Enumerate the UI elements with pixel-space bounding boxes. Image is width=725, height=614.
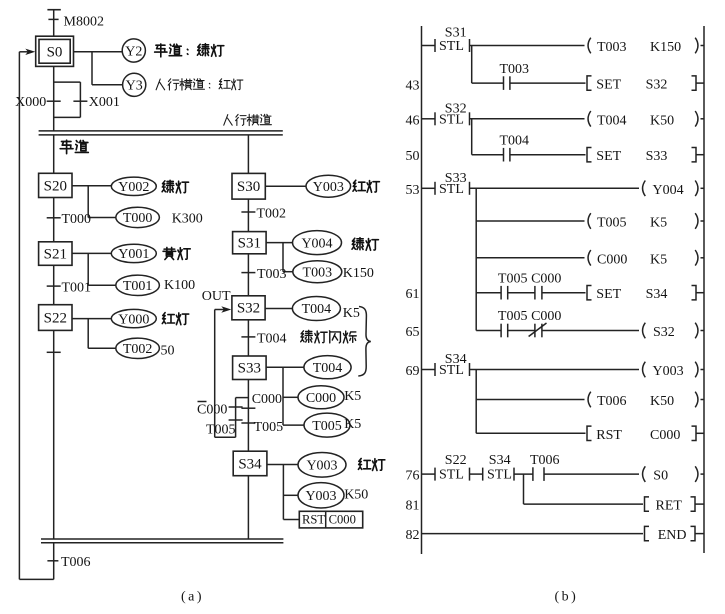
label 车道 (bold) bbox=[60, 140, 88, 153]
svg-text:T003: T003 bbox=[257, 267, 287, 282]
svg-text:C000: C000 bbox=[197, 403, 227, 418]
svg-text:T006: T006 bbox=[530, 453, 560, 468]
wire pedestrian branch bbox=[247, 135, 249, 174]
initial pulse contact M8002 bbox=[47, 10, 104, 36]
wire S20 to S21 bbox=[53, 198, 55, 242]
coil Y004 bbox=[643, 181, 704, 198]
svg-text:SET: SET bbox=[596, 78, 621, 93]
transition X001 bbox=[73, 95, 120, 110]
rung T005 K5 bbox=[476, 213, 704, 230]
svg-text:S0: S0 bbox=[653, 469, 668, 484]
svg-text:S33: S33 bbox=[238, 361, 261, 377]
svg-text:K5: K5 bbox=[650, 252, 667, 267]
svg-text:Y2: Y2 bbox=[125, 44, 142, 59]
svg-text:81: 81 bbox=[406, 499, 420, 514]
wire branch S33 rungs bbox=[475, 188, 477, 330]
svg-text:T003: T003 bbox=[500, 62, 530, 77]
wire S34 outputs bbox=[267, 465, 299, 520]
wire S34 down bbox=[247, 476, 249, 539]
rung 76 S22 STL S34 STL T006 bbox=[422, 453, 640, 483]
rung T006 K50 bbox=[476, 392, 704, 409]
svg-text:M8002: M8002 bbox=[64, 15, 104, 30]
svg-text:(b): (b) bbox=[555, 590, 579, 605]
right power rail bbox=[703, 26, 705, 553]
output coil Y3 bbox=[123, 73, 146, 96]
wire S32 to S33 bbox=[247, 320, 249, 356]
wire S31 outputs bbox=[266, 243, 293, 272]
svg-text:50: 50 bbox=[161, 343, 175, 358]
svg-text:S31: S31 bbox=[445, 26, 467, 41]
coil T003 K150 bbox=[588, 38, 704, 55]
transition T001 bbox=[47, 281, 91, 296]
wire S33 outputs bbox=[266, 367, 304, 425]
wire S20 outputs bbox=[72, 186, 116, 218]
timer coil T005 bbox=[304, 413, 350, 437]
step S34 bbox=[233, 451, 267, 476]
svg-text:76: 76 bbox=[406, 469, 420, 484]
step S33 bbox=[233, 356, 267, 380]
transition T002 pedestrian bbox=[241, 206, 286, 221]
wire branch rung 81 bbox=[523, 474, 525, 504]
wire branch rung 43 bbox=[471, 46, 473, 84]
svg-text:S21: S21 bbox=[44, 246, 67, 262]
parallel branch double line top bbox=[39, 131, 283, 135]
rung S34 STL bbox=[422, 352, 640, 378]
output coil Y001 bbox=[111, 244, 156, 262]
svg-text:T000: T000 bbox=[62, 212, 92, 227]
rung S31 STL bbox=[422, 26, 585, 55]
wire S0 outputs branch bbox=[74, 52, 123, 85]
wire S21 outputs bbox=[72, 253, 116, 285]
brace flashing group bbox=[358, 307, 371, 377]
svg-text:T001: T001 bbox=[62, 281, 92, 296]
wire S32 output bbox=[265, 308, 292, 310]
svg-text:STL: STL bbox=[439, 468, 464, 483]
coil S32 bbox=[643, 323, 704, 340]
svg-text:T005: T005 bbox=[206, 422, 236, 437]
svg-text:S33: S33 bbox=[646, 149, 668, 164]
svg-text:K5: K5 bbox=[344, 389, 361, 404]
reset box RST C000 bbox=[299, 511, 362, 528]
transition T004 bbox=[241, 331, 286, 346]
arrow into S0 bbox=[19, 49, 35, 55]
instruction SET S32 bbox=[587, 76, 704, 93]
label 人行横道 bbox=[224, 114, 272, 125]
wire feedback loop to S0 bbox=[19, 52, 53, 580]
svg-text:46: 46 bbox=[406, 113, 420, 128]
output coil Y004 bbox=[293, 231, 342, 255]
svg-text:50: 50 bbox=[406, 149, 420, 164]
svg-text:K50: K50 bbox=[344, 487, 368, 502]
svg-text:T004: T004 bbox=[257, 331, 287, 346]
output coil Y000 bbox=[111, 309, 156, 327]
rung S32 STL bbox=[422, 102, 585, 128]
svg-text:T003: T003 bbox=[303, 265, 333, 280]
wire S30 to S31 bbox=[247, 199, 249, 232]
transition T002 bbox=[47, 351, 61, 353]
step S22 bbox=[39, 305, 72, 331]
step S20 bbox=[39, 173, 72, 197]
label 绿灯闪烁 (bold) bbox=[301, 330, 357, 343]
svg-text:T004: T004 bbox=[302, 302, 332, 317]
transition C000 bbox=[241, 392, 282, 408]
svg-text:SET: SET bbox=[596, 149, 621, 164]
svg-text:RET: RET bbox=[656, 499, 683, 514]
rung 50 contact T004 bbox=[472, 133, 586, 161]
svg-text:T002: T002 bbox=[123, 342, 153, 357]
svg-text:T005: T005 bbox=[498, 309, 528, 324]
output coil Y2 bbox=[122, 39, 145, 62]
transition T000 bbox=[47, 212, 91, 227]
svg-text:S34: S34 bbox=[445, 352, 467, 367]
svg-text:K5: K5 bbox=[344, 417, 361, 432]
svg-text:61: 61 bbox=[406, 287, 420, 302]
svg-text:T005: T005 bbox=[498, 271, 528, 286]
label 车道：绿灯 (bold) bbox=[155, 44, 224, 57]
svg-text:T004: T004 bbox=[313, 361, 343, 376]
svg-text:T001: T001 bbox=[123, 279, 153, 294]
output coil Y003 (S34) bbox=[298, 453, 346, 478]
svg-text:SET: SET bbox=[596, 287, 621, 302]
instruction END bbox=[422, 526, 705, 543]
svg-text:K150: K150 bbox=[343, 266, 374, 281]
svg-text:Y003: Y003 bbox=[313, 180, 344, 195]
transition T005 bbox=[241, 420, 283, 435]
svg-text:S34: S34 bbox=[646, 287, 668, 302]
rung S33 STL bbox=[422, 171, 640, 197]
rung 43 contact T003 bbox=[472, 62, 586, 90]
svg-text:Y002: Y002 bbox=[118, 180, 149, 195]
wire S30 output bbox=[265, 185, 306, 187]
svg-text:C000: C000 bbox=[597, 252, 627, 267]
svg-text:Y004: Y004 bbox=[301, 236, 332, 251]
svg-text:K5: K5 bbox=[650, 216, 667, 231]
svg-text:K5: K5 bbox=[343, 306, 360, 321]
wire S22 down to bottom bbox=[53, 330, 55, 539]
initial step S0 bbox=[36, 36, 74, 66]
svg-text:S32: S32 bbox=[653, 325, 675, 340]
svg-text:Y003: Y003 bbox=[305, 489, 336, 504]
output coil Y003 bbox=[306, 175, 351, 197]
label 黄灯 (bold) bbox=[163, 247, 190, 259]
wire S0 down with X000 X001 parallel transitions bbox=[54, 66, 81, 131]
svg-text:69: 69 bbox=[406, 364, 420, 379]
instruction RST C000 bbox=[476, 426, 704, 443]
svg-text:T005: T005 bbox=[597, 216, 627, 231]
svg-text:Y000: Y000 bbox=[118, 312, 149, 327]
transition X000 bbox=[15, 95, 61, 110]
step S32 bbox=[232, 296, 265, 320]
svg-text:C000: C000 bbox=[252, 392, 282, 407]
svg-text:T003: T003 bbox=[597, 40, 627, 55]
svg-text:STL: STL bbox=[487, 468, 512, 483]
svg-text:RST: RST bbox=[302, 513, 325, 527]
transition T005 loop bbox=[206, 420, 243, 437]
svg-text:C000: C000 bbox=[531, 309, 561, 324]
transition C000-bar bbox=[197, 402, 243, 418]
svg-text:C000: C000 bbox=[306, 391, 336, 406]
timer coil T004 bbox=[292, 297, 340, 321]
svg-text:S20: S20 bbox=[44, 178, 67, 194]
svg-text:S22: S22 bbox=[44, 310, 67, 326]
svg-text:C000: C000 bbox=[329, 513, 356, 527]
wire left lane line bbox=[53, 135, 55, 173]
wire S22 outputs bbox=[72, 319, 116, 349]
svg-text:T002: T002 bbox=[257, 206, 287, 221]
coil Y003 bbox=[643, 362, 704, 379]
label 绿灯 (bold) bbox=[352, 238, 378, 251]
left power rail bbox=[421, 26, 423, 554]
timer coil T001 bbox=[116, 275, 160, 295]
svg-text:K50: K50 bbox=[650, 394, 674, 409]
svg-text:S33: S33 bbox=[445, 171, 467, 186]
coil S0 bbox=[643, 466, 704, 483]
svg-text:(a): (a) bbox=[181, 590, 204, 605]
svg-text:S34: S34 bbox=[238, 456, 262, 472]
svg-text:Y004: Y004 bbox=[653, 183, 684, 198]
svg-text:T005: T005 bbox=[312, 419, 342, 434]
svg-text:STL: STL bbox=[439, 39, 464, 54]
svg-text:END: END bbox=[658, 528, 687, 543]
svg-text:S32: S32 bbox=[445, 102, 467, 117]
timer coil T000 bbox=[116, 207, 160, 227]
svg-text:Y003: Y003 bbox=[306, 459, 337, 474]
coil T004 K50 bbox=[588, 111, 704, 128]
svg-text:S34: S34 bbox=[489, 453, 511, 468]
instruction SET S33 bbox=[587, 148, 704, 165]
svg-text:X001: X001 bbox=[89, 95, 120, 110]
label 红灯 (bold) bbox=[162, 313, 188, 325]
svg-text:T005: T005 bbox=[254, 420, 284, 435]
svg-text:S22: S22 bbox=[445, 453, 467, 468]
svg-text:K100: K100 bbox=[164, 278, 195, 293]
svg-text:Y3: Y3 bbox=[126, 79, 143, 94]
label 人行横道：红灯 bbox=[156, 79, 243, 91]
svg-text:OUT: OUT bbox=[202, 289, 231, 304]
label 红灯 (bold) bbox=[353, 180, 379, 192]
wire S33 to S34 bbox=[247, 380, 249, 452]
svg-text:82: 82 bbox=[406, 528, 420, 543]
step S31 bbox=[233, 232, 267, 254]
rung 65 contacts T005 C000-NC bbox=[476, 309, 639, 337]
svg-text:Y003: Y003 bbox=[653, 364, 684, 379]
svg-text:K300: K300 bbox=[172, 212, 203, 227]
wire branch rung 50 bbox=[471, 119, 473, 155]
instruction SET S34 bbox=[587, 286, 704, 303]
svg-text:T004: T004 bbox=[500, 133, 530, 148]
wire S21 to S22 bbox=[53, 265, 55, 304]
instruction RET bbox=[524, 497, 705, 514]
transition T006 bbox=[47, 543, 90, 580]
svg-text:K50: K50 bbox=[650, 113, 674, 128]
svg-text:43: 43 bbox=[406, 79, 420, 94]
svg-text:T006: T006 bbox=[597, 394, 627, 409]
wire S31 to S32 bbox=[247, 254, 249, 296]
label 红灯 (bold) bbox=[358, 458, 384, 470]
svg-text:65: 65 bbox=[406, 325, 420, 340]
svg-text:Y001: Y001 bbox=[118, 247, 149, 262]
step S30 bbox=[232, 173, 265, 199]
svg-text:S32: S32 bbox=[646, 78, 668, 93]
wire branch S34 rungs bbox=[475, 370, 477, 434]
svg-text:K150: K150 bbox=[650, 40, 681, 55]
counter coil C000 bbox=[298, 386, 344, 409]
timer coil Y003 K50 bbox=[298, 483, 344, 508]
timer coil T003 bbox=[293, 261, 342, 283]
wire loop branch to S32 bbox=[215, 310, 249, 438]
svg-text:S30: S30 bbox=[237, 179, 260, 195]
svg-text:T006: T006 bbox=[61, 555, 91, 570]
svg-text:C000: C000 bbox=[531, 271, 561, 286]
timer coil T004 (S33) bbox=[304, 356, 351, 379]
svg-text:T004: T004 bbox=[597, 113, 627, 128]
arrow into S32 bbox=[215, 306, 232, 312]
svg-text:T000: T000 bbox=[123, 211, 153, 226]
label 绿灯 (bold) bbox=[162, 180, 188, 193]
svg-text:C000: C000 bbox=[650, 428, 680, 443]
timer coil T002 bbox=[116, 338, 160, 358]
svg-text:53: 53 bbox=[406, 183, 420, 198]
svg-text:RST: RST bbox=[596, 428, 622, 443]
parallel join double line bottom bbox=[41, 539, 283, 543]
svg-text:S0: S0 bbox=[47, 44, 63, 60]
rung 61 contacts T005 C000 bbox=[476, 271, 585, 299]
output coil Y002 bbox=[111, 177, 156, 195]
rung C000 K5 bbox=[476, 250, 704, 267]
svg-text:S32: S32 bbox=[237, 301, 260, 317]
step S21 bbox=[39, 242, 72, 265]
transition T003 bbox=[241, 267, 286, 282]
svg-text:S31: S31 bbox=[238, 235, 261, 251]
